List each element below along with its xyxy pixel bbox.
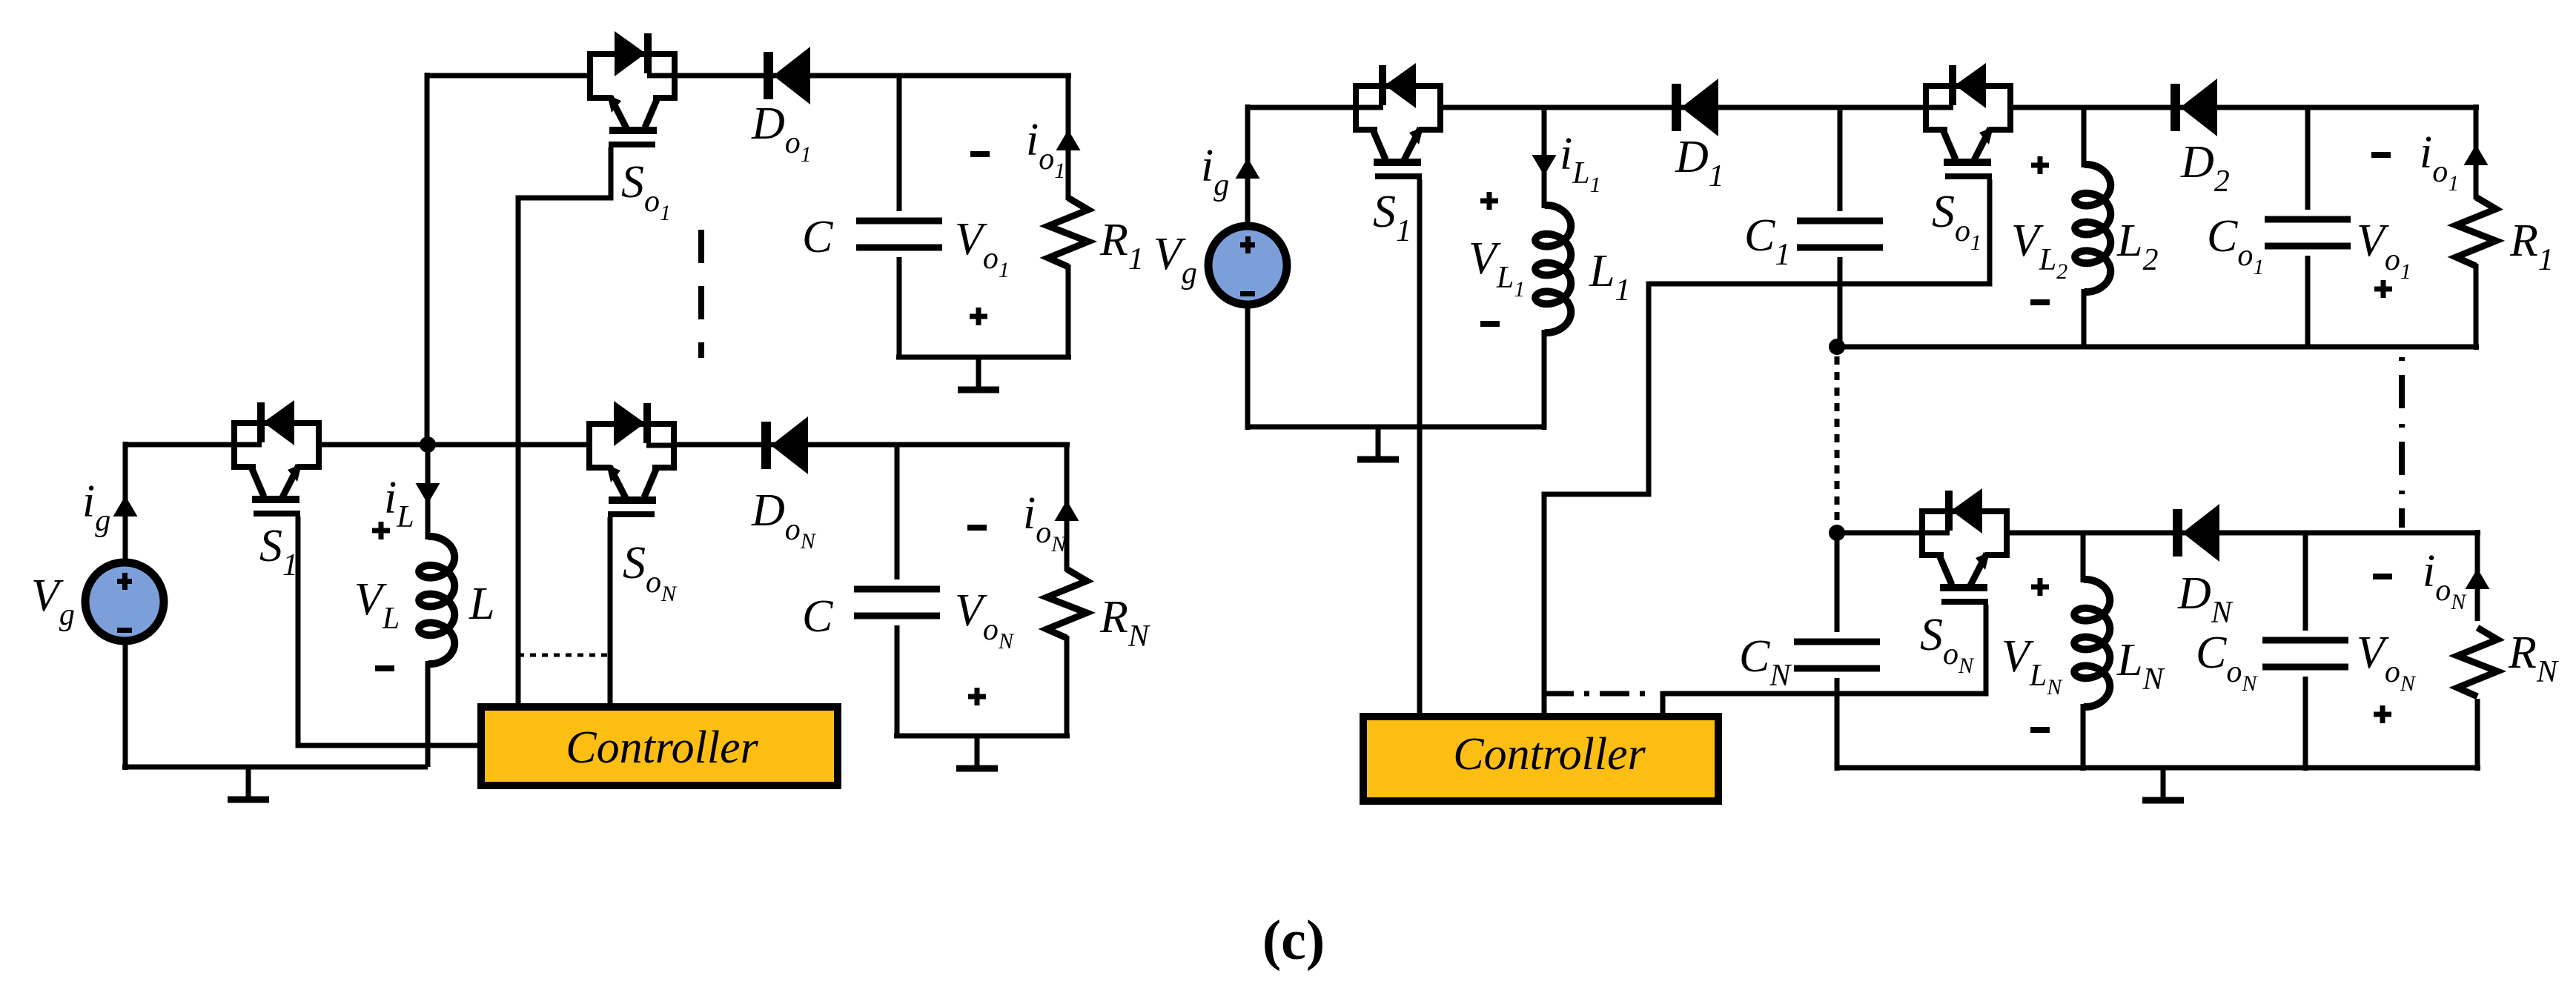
svg-text:(c): (c) (1262, 909, 1325, 971)
wire left-circuit mid rail (125, 442, 234, 448)
capacitor CN (1794, 642, 1880, 668)
wire stageN bottom rail (1837, 765, 2480, 771)
inductor L (419, 536, 454, 664)
arrow iL left (416, 483, 440, 504)
arrow ioN right (2466, 568, 2490, 589)
minus VL left (375, 665, 394, 671)
capacitor C (output N) (854, 589, 940, 616)
minus Vo1 left (970, 151, 990, 157)
controller box left (481, 707, 838, 785)
ground output1 (958, 357, 999, 390)
wire left-circuit switch-node riser (425, 73, 430, 445)
wire SoN right gate lead (1663, 605, 1986, 714)
wire source branch left (123, 442, 128, 565)
svg-text:L: L (468, 579, 494, 629)
junction stageN node (1829, 525, 1845, 541)
wire output1 capacitor branch (897, 76, 902, 211)
voltage source Vg right (1208, 226, 1287, 305)
dash-dot gate continuation (1544, 691, 1649, 697)
minus VoN right (2373, 574, 2392, 579)
plus VLN (2031, 578, 2049, 596)
plus VL2 (2031, 156, 2049, 174)
svg-text:Controller: Controller (566, 722, 758, 773)
diode D2 (2171, 79, 2217, 136)
wire output1 bottom rail (896, 355, 1071, 360)
wire Co1 branch (2305, 107, 2311, 210)
transistor S1 right (1356, 63, 1440, 176)
wire right input bottom rail (1248, 425, 1544, 430)
svg-text:C: C (802, 591, 833, 642)
wire source branch right (1245, 104, 1251, 228)
wire output1 load branch (1066, 76, 1071, 200)
arrow ig right (1236, 158, 1260, 179)
ground left main (228, 767, 269, 800)
wire So1 gate lead (518, 147, 611, 705)
ground stageN (2142, 768, 2184, 800)
minus VL2 (2030, 299, 2050, 305)
minus VLN (2030, 727, 2050, 733)
plus VL1 (1480, 192, 1498, 210)
ground outputN (956, 736, 998, 768)
ground right input (1357, 427, 1399, 459)
transistor SoN right (1922, 488, 2007, 602)
diode DN (2173, 504, 2219, 562)
wire stageN load branch (2475, 530, 2480, 621)
wire outputN load branch (1064, 445, 1070, 571)
capacitor C (output 1) (856, 221, 942, 247)
transistor So1 right (1926, 63, 2010, 176)
wire L1 branch (1542, 107, 1547, 208)
wire left-circuit bottom rail (122, 765, 428, 770)
transistor S1 left (234, 400, 319, 514)
resistor RN left (1047, 569, 1087, 638)
plus Vo1 left (970, 308, 987, 325)
wire stage1 load branch (2474, 104, 2479, 199)
resistor RN right (2457, 628, 2497, 697)
wire CN branch (1835, 533, 1840, 632)
arrow iL1 (1532, 155, 1557, 176)
arrow io1 left (1056, 130, 1081, 150)
svg-text:Controller: Controller (1453, 729, 1646, 780)
capacitor C1 (1797, 221, 1883, 247)
dotted continuation stage link (1835, 356, 1840, 524)
transistor SoN left (589, 401, 674, 514)
wire LN branch (2081, 533, 2086, 582)
wire inductor leads (426, 445, 431, 539)
minus VL1 (1480, 321, 1500, 327)
wire outputN bottom rail (894, 734, 1070, 739)
wire L2 branch (2082, 107, 2087, 167)
plus VoN left (968, 688, 986, 705)
dashed continuation right side (2399, 357, 2405, 528)
dashed continuation between output channels (698, 230, 704, 358)
junction stage1 node (1829, 339, 1845, 355)
wire right-circuit top rail (1248, 105, 1356, 110)
voltage source Vg left (85, 562, 164, 641)
junction switch node (420, 436, 436, 453)
wire SoN gate lead (608, 517, 613, 705)
plus Vo1 right (2374, 280, 2392, 298)
wire S1 gate lead (298, 516, 477, 745)
wire stage1 bottom rail (1837, 345, 2479, 350)
svg-text:C: C (802, 212, 833, 262)
resistor R1 right (2456, 197, 2496, 266)
plus VL left (372, 522, 390, 539)
dotted link between gate leads (518, 654, 610, 657)
wire stageN top rail (1837, 531, 1922, 536)
transistor So1 (IGBT with anti-parallel diode) (590, 31, 675, 144)
wire S1 right gate lead (1417, 179, 1423, 714)
inductor L2 (2075, 165, 2110, 292)
wire outputN capacitor branch (895, 445, 900, 579)
wire CoN branch (2303, 533, 2308, 631)
wire left-circuit top rail (427, 73, 590, 79)
arrow ioN left (1055, 500, 1079, 521)
plus VoN right (2374, 705, 2391, 723)
capacitor CoN (2262, 640, 2348, 667)
capacitor Co1 (2265, 219, 2351, 246)
diode Do1 (764, 47, 810, 104)
diode D1 (1672, 79, 1718, 136)
arrow ig left (113, 496, 138, 516)
diode DoN (761, 416, 808, 474)
minus Vo1 right (2371, 152, 2391, 158)
arrow io1 right (2464, 144, 2489, 165)
inductor L1 (1535, 205, 1571, 333)
wire C1 branch (1838, 107, 1843, 211)
minus VoN left (967, 525, 987, 531)
controller box right (1363, 717, 1718, 801)
resistor R1 (left) (1048, 198, 1088, 267)
inductor LN (2074, 579, 2110, 707)
wire So1 right gate lead (1544, 179, 1990, 714)
